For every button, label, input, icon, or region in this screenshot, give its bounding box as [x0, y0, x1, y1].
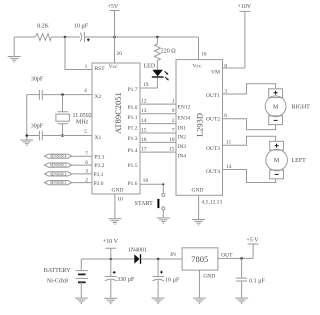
- wire diode to 7805: [141, 258, 183, 260]
- wire cap to +5V node: [84, 36, 198, 38]
- svg-text:5: 5: [84, 129, 87, 135]
- ground battery: [75, 298, 88, 303]
- svg-text:17: 17: [141, 147, 147, 153]
- node X2 junction: [61, 93, 64, 96]
- wire OUT4 to motor LEFT -: [223, 170, 276, 183]
- diode 1N4001: [134, 254, 139, 263]
- wire VM pin 8: [223, 67, 245, 69]
- svg-text:14: 14: [141, 118, 147, 124]
- svg-text:3: 3: [224, 89, 227, 95]
- wire OUT1 to motor RIGHT +: [223, 84, 276, 94]
- ground 10uF: [152, 298, 165, 303]
- svg-text:220 Ω: 220 Ω: [161, 49, 177, 55]
- battery Ni-Cd x8: [44, 259, 88, 298]
- svg-text:Vcc: Vcc: [193, 64, 202, 70]
- svg-text:16: 16: [141, 137, 147, 143]
- capacitor 0.1uF: [236, 258, 265, 297]
- svg-text:4: 4: [84, 88, 87, 94]
- svg-text:Vcc: Vcc: [109, 64, 118, 70]
- node X1 junction: [61, 134, 64, 137]
- svg-text:OUT1: OUT1: [206, 93, 220, 99]
- svg-text:6: 6: [224, 113, 227, 119]
- node 10uF junction: [157, 258, 160, 261]
- svg-text:VM: VM: [211, 70, 220, 76]
- +10 V power symbol: [105, 248, 116, 259]
- ground 0.1uF: [235, 298, 248, 303]
- wire RST: [65, 37, 92, 70]
- svg-text:P1.5: P1.5: [128, 163, 138, 169]
- svg-text:4,5,12,13: 4,5,12,13: [202, 200, 223, 206]
- op-amp U2 L293D body: [176, 60, 223, 196]
- svg-text:OUT3: OUT3: [206, 146, 220, 152]
- wire 7805 GND: [198, 270, 200, 298]
- capacitor 30pF top: [39, 90, 42, 100]
- crystal 11.0592 MHz: [62, 95, 64, 112]
- svg-text:P3.1: P3.1: [94, 172, 104, 178]
- svg-text:12: 12: [141, 99, 147, 105]
- svg-text:OUT2: OUT2: [206, 117, 220, 123]
- wire sensor4 to P3.3: [72, 155, 92, 157]
- wire START to ground: [162, 210, 164, 218]
- svg-text:RST: RST: [95, 66, 106, 72]
- svg-text:BATTERY: BATTERY: [44, 268, 71, 274]
- svg-text:SENSOR.4: SENSOR.4: [50, 155, 67, 159]
- resistor 8.2K: [35, 34, 51, 41]
- svg-text:GND: GND: [112, 187, 124, 193]
- svg-text:0.1 µF: 0.1 µF: [249, 279, 265, 285]
- svg-text:7: 7: [85, 151, 88, 157]
- wire P1.0 to EN12: [140, 103, 176, 105]
- capacitor 330uF: [105, 259, 135, 298]
- svg-text:20: 20: [117, 51, 123, 57]
- svg-text:RIGHT: RIGHT: [292, 104, 311, 110]
- svg-text:2: 2: [85, 177, 88, 183]
- wire sensor3 to P3.2: [72, 164, 92, 166]
- wire +5V rail to U2 Vcc pin 16: [198, 37, 200, 60]
- svg-text:SENSOR.1: SENSOR.1: [50, 181, 67, 185]
- wire sensor2 to P3.1: [72, 173, 92, 175]
- node +5V rail junction: [113, 36, 116, 39]
- wire U1 GND pin 10: [114, 194, 116, 218]
- svg-text:11: 11: [226, 140, 232, 146]
- wire P1.2 to IN1: [140, 123, 176, 125]
- svg-text:1N4001: 1N4001: [128, 248, 147, 254]
- svg-text:10: 10: [169, 137, 175, 143]
- sensor flag SENSOR.2: [45, 172, 72, 177]
- svg-text:IN3: IN3: [178, 144, 187, 150]
- switch START: [162, 193, 165, 196]
- svg-text:10 µF: 10 µF: [165, 277, 180, 283]
- svg-text:Ni-Cdx8: Ni-Cdx8: [47, 279, 68, 285]
- wire P1.5 to IN4: [140, 151, 176, 153]
- sensor flag SENSOR.3: [45, 163, 72, 168]
- svg-text:+10V: +10V: [237, 4, 251, 10]
- ground top-left: [13, 37, 15, 56]
- svg-text:OUT4: OUT4: [206, 169, 220, 175]
- svg-text:7805: 7805: [191, 254, 208, 264]
- svg-text:7: 7: [172, 127, 175, 133]
- svg-text:1: 1: [85, 64, 88, 70]
- node 0.1uF junction: [240, 257, 243, 260]
- svg-text:SENSOR.3: SENSOR.3: [50, 164, 67, 168]
- svg-text:11.0592: 11.0592: [73, 113, 92, 119]
- svg-text:15: 15: [141, 127, 147, 133]
- svg-text:14: 14: [226, 164, 232, 170]
- svg-text:LEFT: LEFT: [292, 158, 307, 164]
- wire Vcc pin 20: [114, 37, 116, 63]
- motor M RIGHT: [265, 89, 310, 125]
- svg-text:P1.4: P1.4: [128, 148, 138, 154]
- ground U1: [108, 219, 121, 224]
- svg-text:OUT: OUT: [221, 253, 233, 259]
- op-amp U1 AT89C2051 body: [92, 63, 140, 194]
- svg-text:IN4: IN4: [178, 153, 187, 159]
- +5 V power symbol: [248, 244, 259, 258]
- svg-text:6: 6: [85, 160, 88, 166]
- svg-text:P3.2: P3.2: [95, 163, 105, 169]
- svg-text:8: 8: [224, 63, 227, 69]
- node A junction: [64, 36, 67, 39]
- wire P1.4 to IN3: [140, 141, 176, 143]
- svg-text:10: 10: [117, 196, 123, 202]
- svg-text:IN2: IN2: [178, 135, 187, 141]
- wire OUT3 to motor LEFT +: [223, 136, 276, 145]
- wire ground to resistor: [14, 36, 35, 38]
- wire U2 GND pins: [198, 195, 200, 219]
- svg-text:X1: X1: [95, 135, 102, 141]
- regulator 7805: [182, 248, 218, 270]
- svg-text:GND: GND: [192, 187, 204, 193]
- svg-text:15: 15: [169, 147, 175, 153]
- svg-text:19: 19: [143, 82, 149, 88]
- wire 7805 OUT: [218, 257, 253, 259]
- svg-text:2: 2: [172, 118, 175, 124]
- node +10V junction: [110, 258, 113, 261]
- svg-text:3: 3: [85, 169, 88, 175]
- svg-text:GND: GND: [203, 274, 215, 280]
- svg-text:8.2K: 8.2K: [37, 24, 50, 30]
- svg-text:1: 1: [172, 99, 175, 105]
- svg-text:M: M: [274, 158, 280, 164]
- svg-text:L293D: L293D: [194, 113, 204, 137]
- svg-text:MHz: MHz: [76, 119, 89, 125]
- wire P1.6 to START: [140, 184, 163, 193]
- ground 330uF: [104, 298, 117, 303]
- wire OUT2 to motor RIGHT -: [223, 119, 276, 130]
- wire P1.1 to EN34: [140, 113, 176, 115]
- motor M LEFT: [266, 141, 306, 179]
- svg-text:+5V: +5V: [107, 4, 118, 10]
- wire battery rail: [81, 258, 134, 260]
- sensor flag SENSOR.1: [45, 181, 72, 186]
- +5V power symbol: [110, 11, 120, 38]
- capacitor 30pF bottom: [39, 131, 42, 141]
- svg-text:AT89C2051: AT89C2051: [113, 92, 123, 134]
- resistor 220 ohm: [154, 37, 160, 61]
- svg-text:+5 V: +5 V: [246, 238, 259, 244]
- wire resistor to node A: [51, 36, 80, 38]
- LED arrows: [165, 71, 168, 74]
- svg-text:10 µF: 10 µF: [74, 24, 89, 30]
- svg-text:P1.3: P1.3: [128, 136, 138, 142]
- svg-text:P3.3: P3.3: [95, 155, 105, 161]
- LED D1: [152, 70, 163, 77]
- wire P1.3 to IN2: [140, 132, 176, 134]
- svg-text:START: START: [135, 201, 153, 207]
- svg-text:EN12: EN12: [178, 105, 191, 111]
- wire LED to pin 19: [140, 78, 157, 88]
- node 220R junction: [156, 36, 159, 39]
- wire X1: [27, 135, 92, 137]
- svg-text:SENSOR.2: SENSOR.2: [50, 172, 67, 176]
- wire X2: [27, 94, 92, 96]
- svg-text:30pF: 30pF: [31, 124, 44, 130]
- svg-text:M: M: [273, 105, 279, 111]
- wire resistor to LED: [156, 61, 158, 70]
- capacitor 10uF psu: [153, 259, 180, 298]
- svg-text:16: 16: [201, 52, 207, 58]
- wire sensor1 to P3.0: [72, 182, 92, 184]
- svg-text:+10 V: +10 V: [103, 239, 119, 245]
- ground 7805: [193, 298, 206, 303]
- svg-text:P1.2: P1.2: [128, 126, 138, 132]
- svg-text:9: 9: [172, 108, 175, 114]
- svg-text:IN: IN: [170, 252, 176, 258]
- ground U2: [192, 220, 205, 225]
- ground crystal: [20, 140, 33, 145]
- svg-text:330 µF: 330 µF: [117, 277, 135, 283]
- svg-text:13: 13: [141, 108, 147, 114]
- ground START: [157, 218, 170, 223]
- wire left crystal vertical: [26, 95, 28, 140]
- svg-text:LED: LED: [144, 63, 156, 69]
- svg-text:P1.0: P1.0: [128, 105, 138, 111]
- svg-text:P1.6: P1.6: [128, 181, 138, 187]
- capacitor 10uF: [80, 33, 82, 42]
- svg-text:X2: X2: [95, 94, 102, 100]
- svg-text:EN34: EN34: [178, 115, 191, 121]
- +10V power symbol: [239, 11, 250, 68]
- svg-text:30pF: 30pF: [31, 77, 44, 83]
- svg-text:18: 18: [143, 178, 149, 184]
- sensor flag SENSOR.4: [45, 154, 72, 159]
- svg-text:P1.1: P1.1: [128, 115, 138, 121]
- svg-text:IN1: IN1: [178, 126, 187, 132]
- svg-text:P3.0: P3.0: [94, 181, 104, 187]
- svg-text:P1.7: P1.7: [128, 87, 138, 93]
